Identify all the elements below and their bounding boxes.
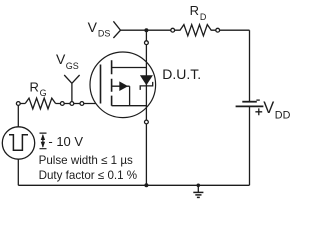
svg-text:GS: GS — [66, 61, 79, 71]
mosfet gate bar — [100, 65, 102, 104]
node gate terminal — [80, 102, 84, 106]
mosfet U1 envelope — [90, 52, 156, 118]
mosfet source tap — [112, 105, 147, 107]
label duty factor note — [39, 169, 138, 182]
svg-text:R: R — [30, 80, 39, 95]
label RG — [30, 80, 47, 98]
svg-text:DD: DD — [275, 110, 291, 122]
wire top drain rail — [121, 29, 250, 31]
mosfet body arrow — [119, 81, 128, 91]
label VDS — [88, 19, 111, 39]
wire drain-source vertical — [145, 30, 147, 185]
wire bottom rail — [18, 184, 249, 186]
node drain terminal — [145, 41, 149, 45]
label RD — [190, 3, 207, 22]
node gate probe junction — [70, 102, 74, 106]
svg-text:V: V — [56, 51, 66, 67]
svg-text:D: D — [200, 12, 207, 22]
probe VGS — [64, 75, 79, 102]
label DUT — [162, 66, 201, 82]
junction VDS-drain — [144, 28, 148, 32]
mosfet drain tap — [112, 67, 147, 69]
junction source-bottom — [144, 183, 148, 187]
node source terminal — [145, 120, 149, 124]
svg-text:D.U.T.: D.U.T. — [162, 66, 201, 82]
wire gate rail — [20, 103, 100, 105]
svg-text:Pulse width ≤ 1 µs: Pulse width ≤ 1 µs — [39, 154, 133, 167]
label VGS — [56, 51, 79, 71]
svg-text:DS: DS — [98, 29, 111, 39]
body diode D1 — [140, 75, 153, 90]
wire pulse generator to RG — [17, 105, 19, 127]
dimension arrow pulse amplitude — [40, 133, 47, 149]
label VDD — [263, 99, 290, 121]
junction ground — [197, 184, 201, 188]
wire pulse generator to bottom rail — [17, 159, 19, 185]
label -10V — [48, 134, 83, 149]
svg-text:G: G — [40, 88, 47, 98]
battery plus sign — [255, 108, 262, 115]
battery VDD — [236, 102, 264, 107]
svg-text:V: V — [88, 19, 98, 35]
svg-text:V: V — [263, 99, 274, 117]
svg-text:Duty factor ≤ 0.1 %: Duty factor ≤ 0.1 % — [39, 169, 138, 182]
label pulse width note — [39, 154, 133, 167]
mosfet channel bar — [111, 60, 113, 105]
wire right rail — [249, 30, 251, 185]
resistor RD — [171, 25, 220, 36]
battery minus sign — [256, 99, 259, 101]
svg-text:- 10 V: - 10 V — [48, 134, 83, 149]
resistor RG — [16, 98, 64, 109]
pulse generator G1 — [2, 127, 34, 159]
mosfet body-source link — [129, 86, 131, 106]
mosfet body tap — [112, 85, 130, 87]
probe VDS — [113, 21, 120, 38]
ground — [193, 185, 203, 197]
svg-text:R: R — [190, 3, 199, 18]
